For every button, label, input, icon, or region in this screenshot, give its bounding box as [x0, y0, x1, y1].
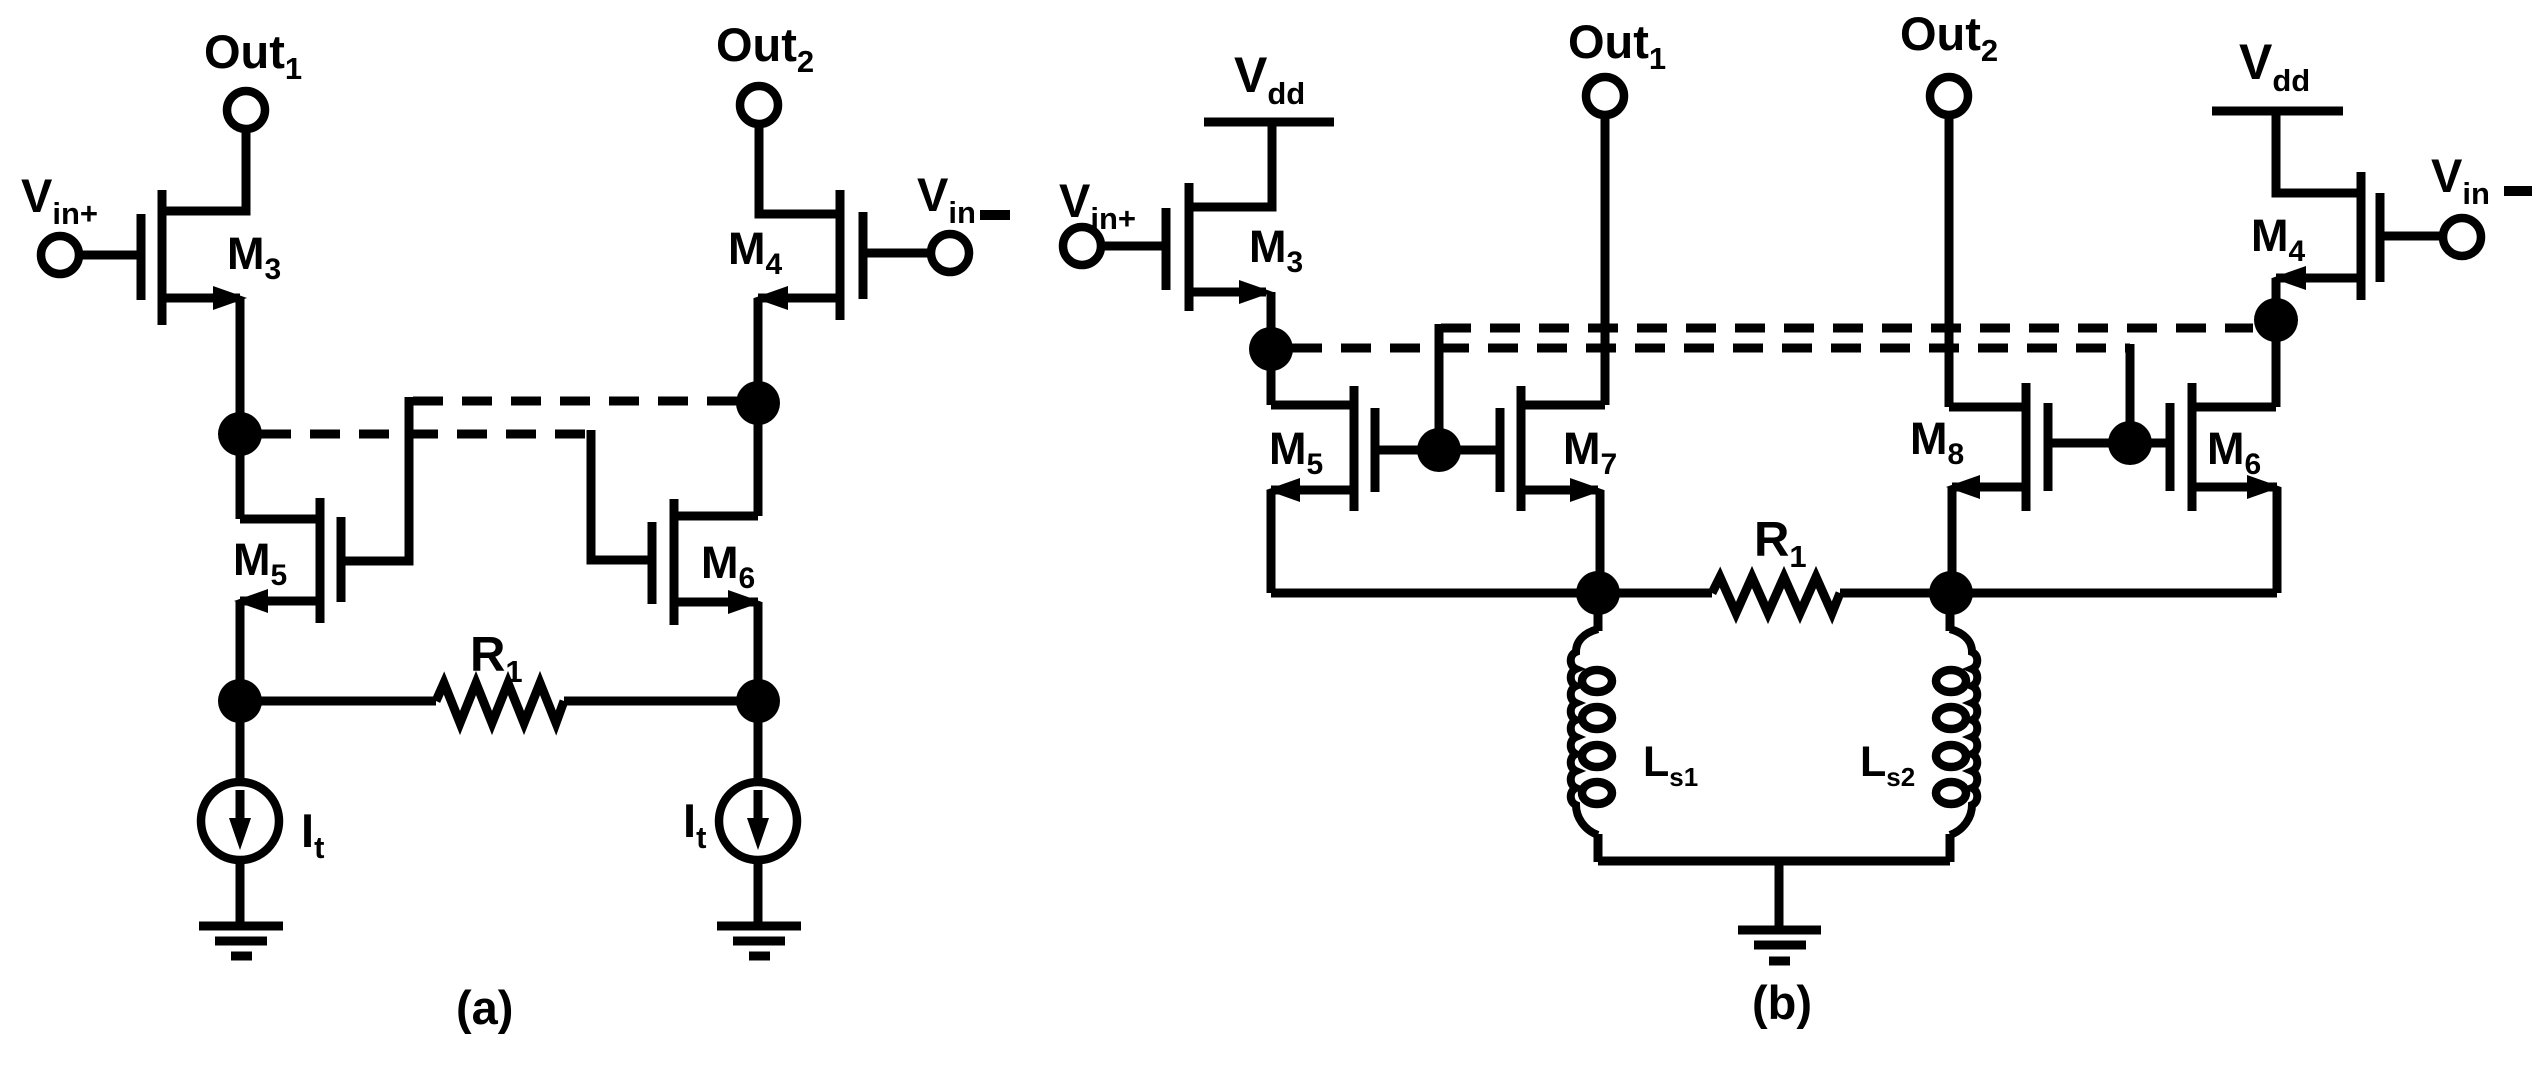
svg-text:(a): (a) — [456, 981, 513, 1034]
svg-text:(b): (b) — [1752, 976, 1812, 1029]
